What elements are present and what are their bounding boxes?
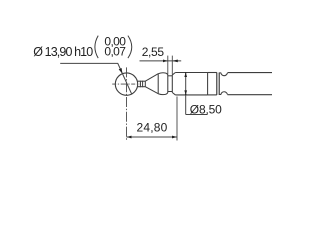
svg-text:0,07: 0,07 [104, 45, 126, 59]
dimension 2,55 left arrow [163, 60, 168, 63]
neck between ball and cone [137, 81, 145, 88]
leader line of Ø13,90 (shelf and diagonal into ball) [60, 63, 132, 94]
ball horizontal centerline [112, 83, 141, 85]
cone taper [145, 74, 158, 94]
dimension 24,80 left arrow [127, 136, 132, 139]
dimension 24,80 line [127, 136, 178, 138]
cylinder Ø8,50 left face with chamfer [172, 73, 175, 95]
dimension 2,55 left extension line [167, 56, 169, 75]
long shank to image edge [228, 73, 273, 95]
dimension Ø8,50 top arrow [184, 72, 187, 77]
dimension 2,55 right arrow [172, 60, 178, 63]
dimension 2,55 line [140, 60, 182, 62]
concave relief neck on shank [219, 73, 227, 95]
dimension 2,55 right extension line [171, 56, 173, 75]
dimension Ø8,50 leader foot [186, 114, 207, 116]
barrel at cone big end (rounded shoulders) [158, 73, 168, 95]
svg-text:Ø8,50: Ø8,50 [190, 103, 222, 117]
svg-text:Ø 13,90 h10: Ø 13,90 h10 [33, 45, 93, 59]
svg-text:24,80: 24,80 [137, 120, 168, 134]
leader arrowhead on ball surface [119, 68, 123, 74]
ring collar [208, 73, 220, 95]
dimension Ø8,50 line through cylinder [185, 73, 187, 115]
big left parenthesis [95, 36, 98, 59]
relief groove (2,55 wide) [168, 76, 173, 92]
ball vertical centerline (left extension of 24,80) [126, 67, 128, 140]
big right parenthesis [128, 36, 132, 59]
cylinder Ø8,50 body [175, 73, 207, 95]
stylus ball outline [115, 73, 137, 95]
dimension Ø8,50 bottom arrow [184, 90, 187, 95]
svg-text:2,55: 2,55 [142, 45, 165, 59]
dimension 24,80 right arrow [172, 136, 177, 139]
dimension 24,80 right extension line [176, 97, 178, 141]
